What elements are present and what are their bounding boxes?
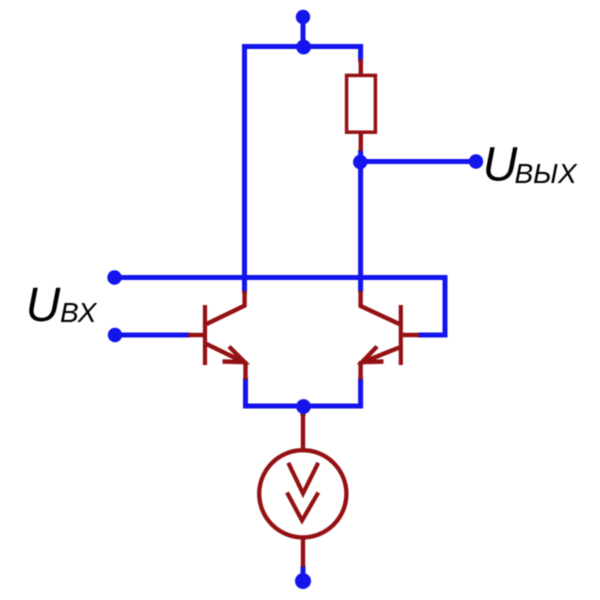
transistor Q2 base lead	[403, 333, 419, 337]
node top junction dot	[296, 40, 311, 55]
wire upper input to right base	[115, 278, 446, 336]
node bottom terminal dot	[295, 573, 311, 589]
wire current source top stub	[301, 406, 306, 416]
wire top terminal stub	[301, 17, 306, 47]
label Uvx	[26, 279, 98, 332]
wire right emitter drop	[358, 378, 363, 407]
svg-text:ВЫХ: ВЫХ	[515, 158, 578, 189]
svg-text:U: U	[26, 279, 61, 332]
current source I1 bottom lead	[301, 536, 305, 567]
current source I1 top lead	[301, 413, 305, 452]
transistor Q1 emitter	[207, 344, 246, 380]
wire output	[360, 159, 476, 164]
node top terminal dot	[296, 10, 310, 24]
resistor R1 top lead	[359, 59, 363, 76]
label Uvyx	[483, 139, 578, 192]
wire left collector riser	[242, 44, 247, 293]
node output junction dot	[353, 155, 367, 169]
current source I1 chevron 1	[288, 463, 318, 494]
wire left emitter drop	[243, 378, 248, 407]
transistor Q1 collector	[207, 291, 245, 324]
node upper input terminal dot	[107, 270, 121, 284]
transistor Q2 base bar	[399, 305, 403, 365]
wire right collector riser	[358, 160, 363, 292]
svg-text:U: U	[483, 139, 518, 192]
node lower input terminal dot	[108, 328, 122, 342]
current source I1 circle	[259, 450, 346, 537]
transistor Q2 emitter	[361, 348, 400, 380]
resistor R1 bottom lead	[359, 132, 363, 151]
current source I1 chevron 2	[287, 493, 318, 521]
transistor Q1 base lead	[188, 333, 203, 337]
wire resistor top lead	[358, 44, 363, 62]
transistor Q1 emitter arrow	[223, 347, 245, 363]
transistor Q2 emitter arrow	[362, 347, 384, 363]
svg-text:ВХ: ВХ	[60, 297, 98, 328]
wire resistor bottom lead	[358, 150, 363, 164]
transistor Q2 collector	[361, 291, 400, 324]
node output terminal dot	[469, 154, 483, 168]
wire emitter bus	[246, 404, 361, 407]
wire lower input to left base	[115, 333, 190, 338]
transistor Q1 base bar	[203, 305, 207, 365]
node emitter bus junction dot	[296, 399, 311, 414]
wire bottom terminal stub	[301, 566, 306, 581]
resistor R1	[347, 75, 376, 132]
wire top rail	[242, 44, 361, 49]
